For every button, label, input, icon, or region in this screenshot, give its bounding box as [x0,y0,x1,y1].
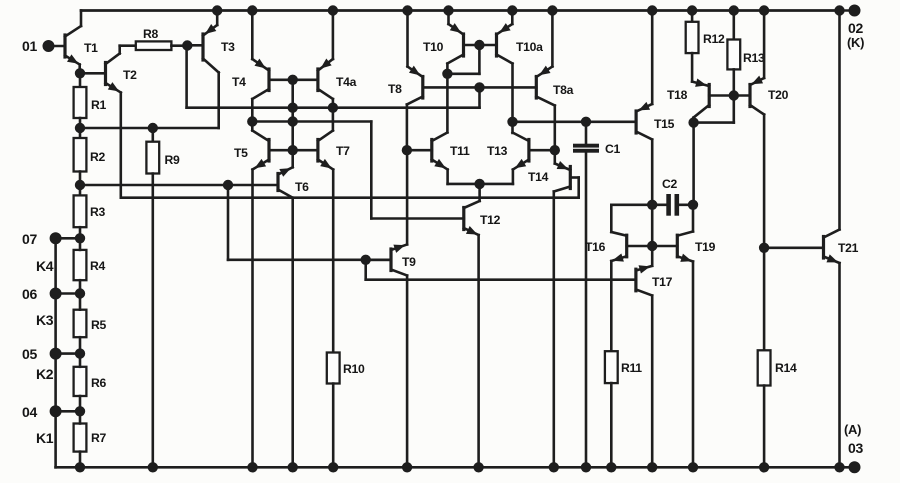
node: R3/R4 junction [75,234,84,243]
node 03 terminal [844,422,863,473]
svg-text:R13: R13 [743,51,765,65]
node: T9 emitter ground [402,463,411,472]
node: T20 emitter on rail [759,6,768,15]
wire: positive top rail [81,9,840,12]
node: T1 emitter / R1 top / T2 base [75,69,84,78]
svg-text:T17: T17 [652,275,673,289]
resistor R10 [327,353,365,384]
node: R13 on rail [729,6,738,15]
node: T12 emitter ground [474,463,483,472]
svg-text:T14: T14 [528,170,549,184]
svg-text:T7: T7 [336,144,350,158]
node: line C / center vertical [288,117,297,126]
svg-text:T2: T2 [123,68,137,82]
wire: T11 base [407,149,432,152]
svg-text:R8: R8 [143,27,159,41]
wire: T2 collector to R8 [120,44,136,47]
svg-text:T6: T6 [295,180,309,194]
node: T5/T7 base junction [288,146,297,155]
wire: T3-base vertical to line A [185,46,188,108]
svg-text:(A): (A) [844,422,861,437]
svg-text:T19: T19 [695,240,716,254]
svg-text:T9: T9 [402,255,416,269]
node: R11 ground [607,463,616,472]
wire: T18 collector down to C2 right [692,123,695,205]
node: line A / center vertical [288,103,297,112]
wire: T5 emitter to ground [251,170,254,468]
node: R12 on rail [687,6,696,15]
transistor T6 [278,150,309,198]
wire: T18 collector to base-node loop [694,96,734,123]
transistor T16 [585,232,652,261]
svg-text:03: 03 [848,440,863,456]
svg-text:T20: T20 [768,88,789,102]
wire: center vertical T4 bases to T5/T7 bases [291,80,294,150]
svg-text:T16: T16 [585,240,606,254]
svg-text:T4a: T4a [336,75,357,89]
node: R8 / T3 base / feedback [183,41,192,50]
node: T20 collector / T21 base [759,243,768,252]
wire: 04 stub [56,410,80,413]
resistor R2 [74,128,106,185]
node: T10 emitter on rail [444,6,453,15]
label K2 [36,366,54,382]
svg-text:R1: R1 [91,98,107,112]
node: line E / T10a-T13 collectors [508,117,517,126]
resistor R11 [605,351,642,383]
capacitor C2 [652,177,693,215]
svg-text:T12: T12 [480,213,501,227]
transistor T8a [536,11,573,151]
node: T4/T5 collectors line C [248,117,257,126]
transistor T11 [432,133,470,184]
node: T17 collector ground [648,463,657,472]
node: T10/T10a base junction [475,40,484,49]
transistor T3 [187,11,235,129]
node: T14 collector ground [549,463,558,472]
svg-text:(K): (K) [847,35,864,50]
resistor R8 [136,27,172,50]
node: T9 base branch [361,255,370,264]
node: T6 collector ground [288,463,297,472]
svg-text:R6: R6 [91,376,107,390]
svg-text:T11: T11 [450,144,470,158]
node: R4/R5 junction [75,289,84,298]
wire: line C horizontal y121.5 [252,120,371,123]
resistor R13 [727,11,765,96]
wire: C2 left branch to T16 collector [611,205,652,232]
svg-text:K3: K3 [36,312,54,328]
transistor T13 [487,133,555,184]
resistor R1 [74,73,107,128]
svg-text:R4: R4 [90,259,106,273]
wire: R2 node to T6 base y185 [80,184,278,187]
svg-text:T21: T21 [838,241,859,255]
svg-text:05: 05 [22,346,37,362]
wire: R11 bottom to ground [610,383,613,467]
node: T15 collector / C2 left [648,200,657,209]
node: R10 ground [329,463,338,472]
wire: R1-R9-T3 horizontal at y128 [80,127,219,130]
wire: 07 stub [56,237,80,240]
node: emitters / T12 collector [475,179,484,188]
node: T8 emitter on rail [403,6,412,15]
svg-text:R2: R2 [90,150,106,164]
wire: T12 collector riser [478,184,481,201]
svg-text:T10: T10 [423,40,444,54]
wire: 02 stub [840,9,855,12]
node: T18 collector junction [689,118,698,127]
resistor R6 [74,354,107,412]
node: bottom rail right corner [835,463,844,472]
transistor T19 [652,205,715,468]
transistor T4a [293,11,357,131]
wire: T11/T13 emitter tie y183.9 [448,183,513,186]
node: top rail right corner [835,6,844,15]
svg-text:R14: R14 [775,361,797,375]
node: T4/T4a base junction [288,75,297,84]
svg-text:K4: K4 [36,258,54,274]
wire: R14 bottom to ground [763,386,766,468]
resistor R12 [686,11,725,82]
wire: 05 stub [56,352,80,355]
svg-text:R9: R9 [165,153,181,167]
wire: bottom ground rail [56,466,840,469]
node 05 terminal [22,346,61,362]
wire: 03 stub [840,466,855,469]
node: T18/T20 base junction [729,91,738,100]
wire: R9 top stem [152,128,155,142]
node: T16/T19 base junction [648,241,657,250]
resistor R7 [74,411,107,467]
svg-text:R3: R3 [90,205,106,219]
svg-text:T15: T15 [654,117,675,131]
transistor T20 [734,11,789,351]
node: C1 ground [581,463,590,472]
node: T4a emitter on rail [328,6,337,15]
wire: node to T2 base [80,72,106,75]
transistor T14 [528,150,579,467]
transistor T2 [106,46,138,93]
node: T5 emitter ground [248,463,257,472]
transistor T15 [636,11,675,205]
wire: line A right end riser [478,87,481,107]
transistor T10a [497,11,544,134]
wire: line B bases y87.4 [423,86,537,89]
svg-text:04: 04 [22,404,37,420]
node: R9 ground [148,463,157,472]
resistor R9 [146,142,180,174]
node: T10 collector-base tie [443,69,452,78]
wire: T15 collector to base node vertical [651,205,654,266]
node 02 terminal [847,5,864,50]
transistor T18 [667,79,734,122]
svg-text:C2: C2 [662,177,678,191]
wire: 01 to T1 base [49,45,66,48]
node: C2 right / T18-T19 collectors [688,200,697,209]
capacitor C1 [574,122,621,468]
node: T19 emitter ground [688,463,697,472]
wire: T9 base node down and right to T17 base [366,260,636,280]
node: T8 collector / T11 base [402,146,411,155]
transistor T9 [366,150,416,467]
svg-text:T18: T18 [667,88,688,102]
node 01 terminal [22,38,54,54]
transistor T10 [423,11,497,133]
svg-text:R12: R12 [703,32,725,46]
transistor T12 [464,201,501,467]
transistor T5 [234,122,293,170]
wire: R8 right to T3 base node [171,44,187,47]
node: T8a collector / T13 base / T14 emitter [550,146,559,155]
transistor T8 [388,11,423,151]
svg-text:R7: R7 [91,431,107,445]
svg-text:T8: T8 [388,82,402,96]
svg-text:T1: T1 [84,41,98,55]
node: line A / T4a collector [328,103,337,112]
node: R7 ground [75,463,84,472]
wire: branch to T9 base y259.8 [228,258,391,261]
transistor T7 [293,131,350,170]
wire: R9 bottom to ground rail [152,174,155,468]
svg-text:T13: T13 [487,144,508,158]
svg-text:R5: R5 [91,318,107,332]
transistor T4 [232,11,293,122]
wire: R10 bottom to ground [332,384,335,468]
wire: T6-base branch down [227,185,230,260]
node: T3 emitter on top rail [213,6,222,15]
node: R14 ground [759,463,768,472]
svg-text:T3: T3 [221,40,235,54]
svg-text:C1: C1 [605,142,621,156]
wire: line C riser to T12 base [370,122,373,219]
svg-text:T10a: T10a [516,40,543,54]
node: line B junction [475,83,484,92]
wire: T21 base from T20 collector [764,247,823,250]
svg-text:01: 01 [22,38,37,54]
resistor R3 [74,185,106,238]
node 04 terminal [22,404,61,420]
wire: T12 base y218.5 [371,217,464,220]
node: R6/R7 junction [75,407,84,416]
transistor T1 [65,11,98,74]
svg-text:K2: K2 [36,366,54,382]
node 06 terminal [22,286,61,302]
svg-text:07: 07 [22,231,37,247]
node: line E / C1 stem [581,117,590,126]
svg-text:02: 02 [848,20,863,36]
transistor T21 [824,11,859,468]
wire: line E horizontal y121.8 [513,121,637,124]
node: T8a emitter on rail [548,6,557,15]
label K3 [36,312,54,328]
wire: T2 emitter vertical down [120,93,123,198]
resistor R14 [758,350,797,385]
node: R2/R3 junction [75,180,84,189]
svg-text:R10: R10 [343,362,365,376]
wire: T7 emitter down to R10 [332,170,335,353]
node: R9 top [148,123,157,132]
node 07 terminal [22,231,61,247]
node: R1/R2 junction [75,123,84,132]
node: R5/R6 junction [75,349,84,358]
label K1 [36,430,54,446]
wire: 06 stub [56,292,80,295]
svg-text:R11: R11 [621,361,642,375]
wire: T6 collector to ground [291,198,294,468]
wire: line A horizontal y107.7 [187,106,480,109]
wire: T16 emitter to R11 [610,261,613,351]
node: T10a emitter on rail [508,6,517,15]
svg-text:06: 06 [22,286,37,302]
svg-text:T5: T5 [234,146,248,160]
svg-text:T8a: T8a [553,83,574,97]
svg-text:T4: T4 [232,75,246,89]
resistor R5 [74,294,107,354]
wire: left terminal bus vertical [54,238,57,467]
transistor T17 [636,266,673,468]
node: T15 emitter on rail [648,6,657,15]
node: T4 emitter on rail [248,6,257,15]
wire: T10 c-b tie L-wire [447,45,479,74]
svg-text:K1: K1 [36,430,54,446]
label K4 [36,258,54,274]
resistor R4 [74,238,106,293]
node: T6 base branch [223,180,232,189]
wire: line G horizontal y197.7 [121,196,579,199]
